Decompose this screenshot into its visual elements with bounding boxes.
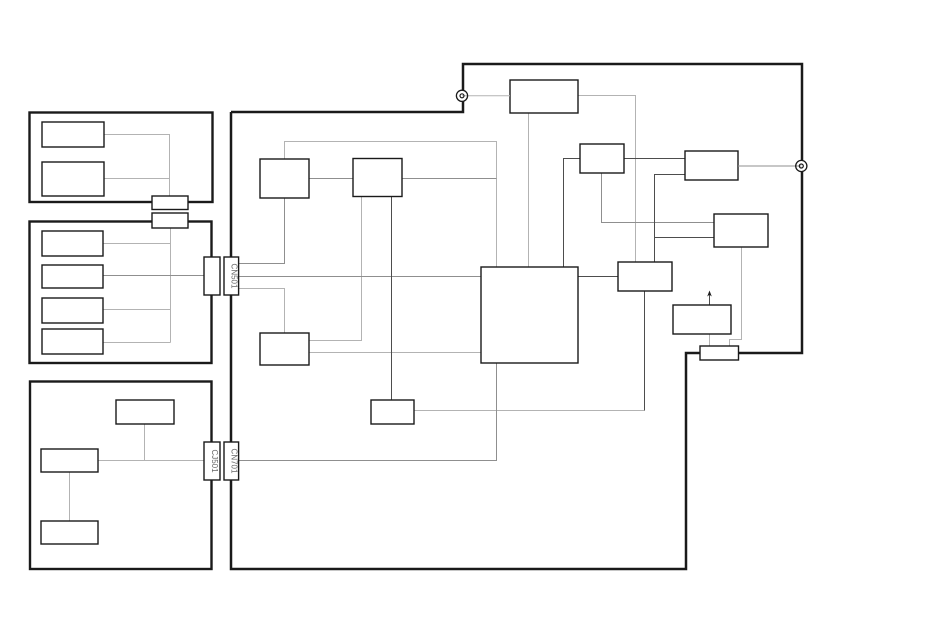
svg-text:CN701: CN701 <box>229 449 238 474</box>
svg-text:CN501: CN501 <box>229 264 238 289</box>
svg-text:CJ501: CJ501 <box>210 449 219 473</box>
